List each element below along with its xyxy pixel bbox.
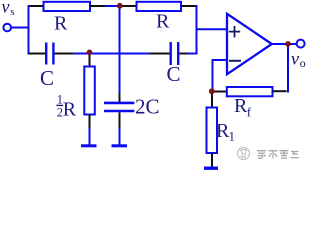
wire right vertical (node B column) (196, 5, 198, 55)
wire Rf to output column (black) (273, 90, 287, 92)
op-amp plus sign (229, 26, 240, 37)
junction node A (top center) (117, 3, 123, 9)
svg-text:s: s (10, 6, 14, 18)
svg-text:R: R (156, 11, 170, 33)
svg-text:v: v (291, 49, 299, 69)
svg-text:o: o (300, 56, 306, 70)
wire node F to Rf (212, 91, 227, 93)
wire inverting input horizontal (212, 59, 228, 61)
wire R to node A (blue part) (105, 5, 120, 7)
wire 2C to ground (black then blue) (119, 112, 121, 145)
watermark logo (238, 148, 250, 160)
wire R to node A (black part) (90, 5, 105, 7)
resistor R (second, top-right) (137, 2, 182, 11)
wire C second to right vertical (black then blue) (180, 53, 197, 55)
wire to capacitor C (second) black part (150, 53, 170, 55)
wire node A to resistor R (second) (120, 5, 137, 7)
svg-text:1: 1 (229, 129, 236, 144)
junction node D (center of C-C) (87, 50, 93, 56)
svg-text:R: R (54, 13, 68, 35)
wire C to node D (black part) (55, 53, 74, 55)
wire C to node D and onward (blue part, crosses center vertical) (73, 53, 150, 55)
label v_s (2, 0, 15, 18)
resistor half R (84, 67, 95, 115)
label v_o (291, 49, 306, 71)
svg-text:C: C (167, 62, 181, 86)
wire node D to half-R (89, 54, 91, 68)
wire R1 to ground (211, 153, 213, 167)
wire center vertical node A to 2C (blue part) (119, 6, 121, 93)
label R_1 (216, 120, 235, 144)
junction node E (output) (285, 41, 291, 47)
wire output column vertical (287, 44, 289, 93)
svg-text:R: R (63, 99, 77, 121)
watermark text (257, 150, 299, 158)
wire node B to op-amp noninverting input (197, 28, 228, 30)
output terminal vo (297, 40, 305, 48)
wire R second to right vertical (181, 5, 196, 7)
label 1/2 R (56, 93, 77, 121)
ground under R1 (204, 166, 218, 169)
svg-text:2C: 2C (135, 95, 160, 119)
label Rf (234, 95, 252, 120)
resistor R (first, top-left) (44, 2, 91, 11)
ground under 2C (112, 144, 128, 147)
capacitor 2C (104, 103, 134, 111)
capacitor C (second) (171, 42, 179, 65)
svg-text:C: C (40, 66, 54, 90)
wire op-amp output to node E (271, 43, 297, 45)
op-amp U1 (227, 14, 272, 74)
svg-text:f: f (247, 105, 252, 120)
junction node F (inverting node) (209, 88, 215, 94)
capacitor C (first) (46, 43, 53, 65)
input terminal vs (3, 24, 11, 32)
svg-text:v: v (2, 0, 10, 17)
op-amp minus sign (229, 60, 241, 62)
wire left vertical to capacitor C (first) (29, 53, 46, 55)
wire input to left vertical (11, 27, 30, 29)
wire node F to R1 (211, 92, 213, 109)
resistor Rf (227, 87, 273, 96)
wire center vertical black part to 2C (119, 93, 121, 102)
resistor R1 (207, 108, 218, 154)
wire left vertical (28, 5, 30, 55)
wire to resistor R (first) (29, 5, 44, 7)
ground under half-R (81, 144, 97, 147)
wire inverting input vertical down to node F (212, 60, 214, 92)
wire half-R to ground (black then blue) (89, 115, 91, 146)
